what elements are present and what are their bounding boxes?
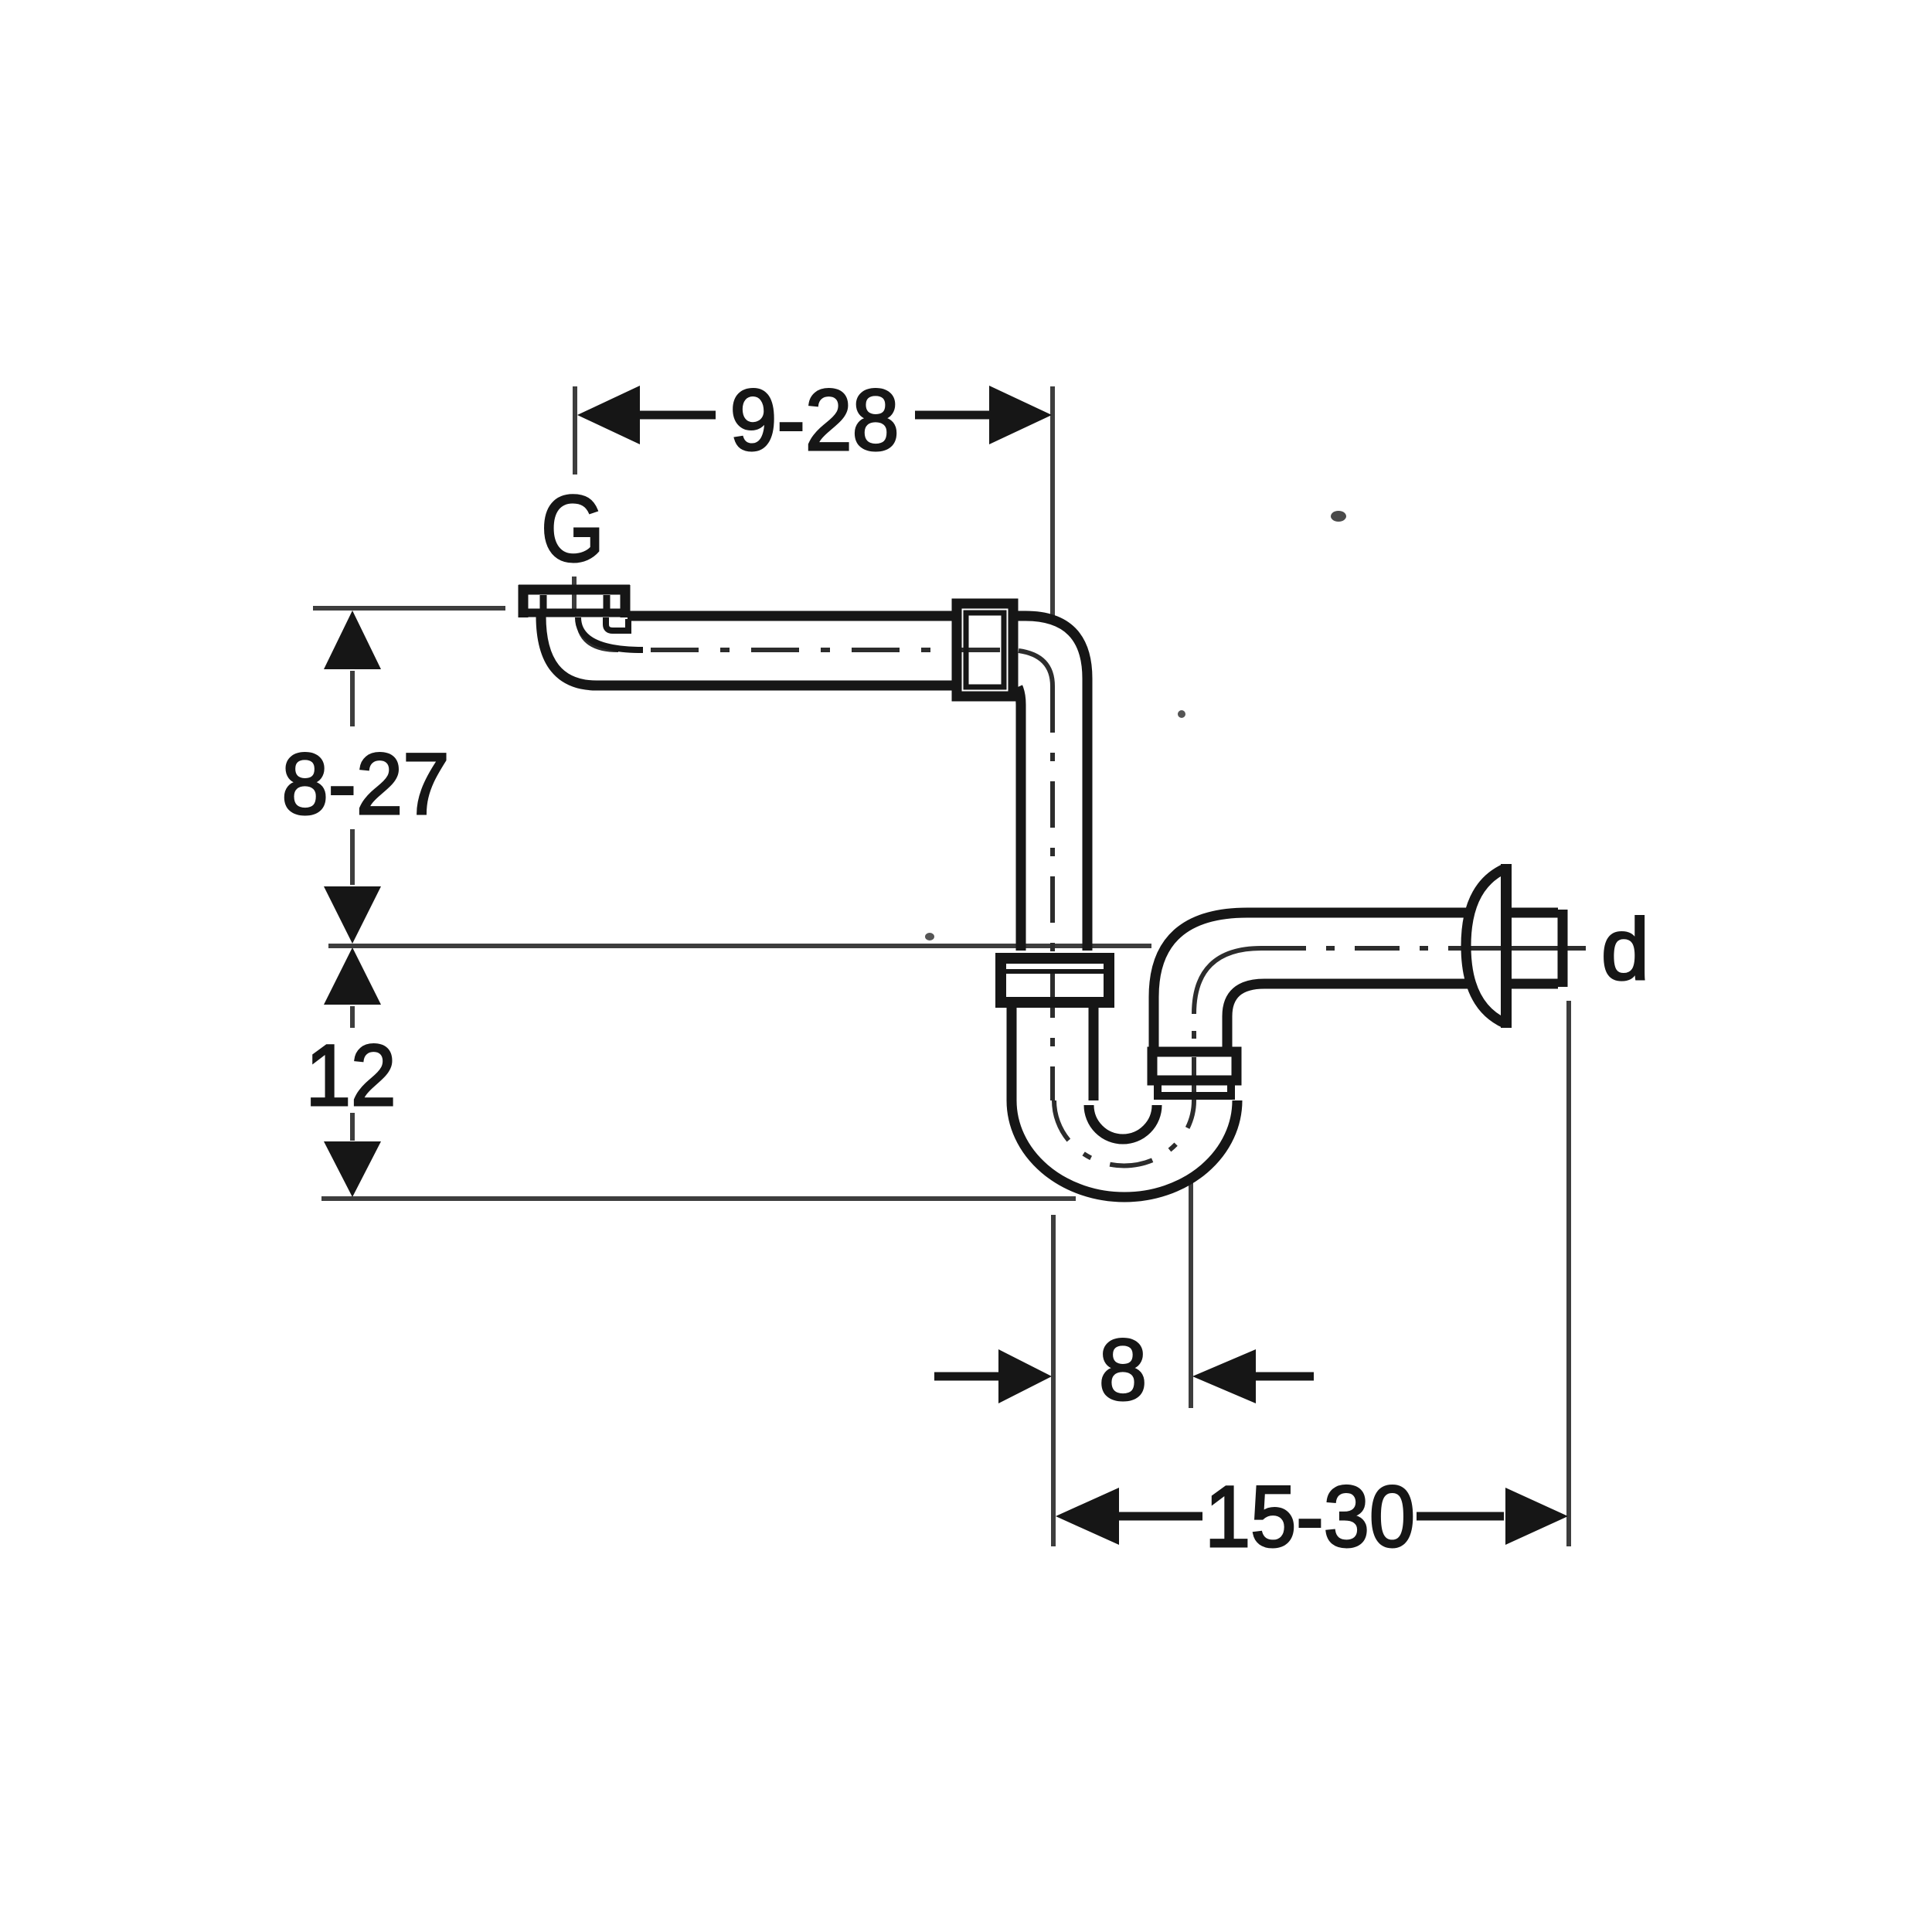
svg-text:15-30: 15-30	[1205, 1468, 1415, 1565]
svg-text:9-28: 9-28	[730, 372, 900, 468]
svg-text:12: 12	[306, 1027, 396, 1124]
svg-text:d: d	[1601, 901, 1649, 998]
svg-text:8: 8	[1099, 1321, 1147, 1418]
svg-text:8-27: 8-27	[282, 736, 450, 832]
svg-text:G: G	[541, 476, 604, 581]
